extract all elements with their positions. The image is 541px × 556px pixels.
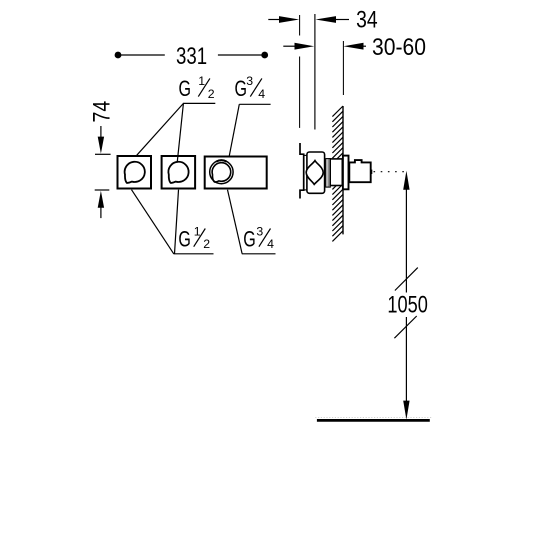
dimension 331 right end dot bbox=[261, 52, 268, 59]
leader line to bottom G1/2 from square 1 bbox=[132, 190, 174, 254]
svg-text:3: 3 bbox=[246, 74, 253, 88]
valve knob bubble 2 bbox=[168, 162, 188, 183]
dimension 1050 break slash upper bbox=[395, 268, 418, 291]
leader line to top G1/2 from bubble 2 bbox=[177, 104, 183, 163]
svg-text:30-60: 30-60 bbox=[372, 34, 426, 61]
valve square 2 bbox=[162, 156, 196, 189]
svg-text:1050: 1050 bbox=[387, 291, 428, 318]
svg-text:34: 34 bbox=[356, 7, 378, 34]
valve rectangle 3 (thermostat) bbox=[205, 157, 267, 189]
svg-text:1: 1 bbox=[198, 74, 205, 88]
handle nub bbox=[371, 170, 373, 174]
svg-text:G: G bbox=[178, 226, 191, 251]
dimension 74 top tick bbox=[95, 153, 111, 155]
thermostat inner bubble bbox=[212, 163, 231, 182]
leader line to top G3/4 from rectangle 3 bbox=[229, 104, 239, 156]
label G1/2 bottom text bbox=[178, 224, 210, 251]
floor shadow dotted line bbox=[315, 416, 431, 418]
svg-text:3: 3 bbox=[256, 224, 263, 238]
dimension 34 right arrow bbox=[335, 19, 349, 21]
dimension 1050 up arrow bbox=[403, 171, 409, 190]
dimension 74 bottom tick bbox=[95, 189, 110, 191]
svg-text:G: G bbox=[243, 226, 256, 251]
label G3/4 bottom text bbox=[243, 224, 274, 251]
thermostat outer circle bbox=[210, 160, 233, 183]
valve knob bubble 1 bbox=[125, 162, 145, 183]
valve square 1 bbox=[118, 156, 152, 189]
leader line to bottom G3/4 from rectangle 3 bbox=[228, 190, 243, 254]
dimension 331 line left segment bbox=[118, 54, 165, 56]
label G3/4 top text bbox=[235, 74, 266, 101]
dimension 1050 line lower segment bbox=[405, 317, 407, 405]
dimension 74 up arrow and lower line bbox=[98, 191, 104, 208]
label G1/2 top underline bbox=[183, 102, 215, 104]
dimension 331 line right segment bbox=[218, 54, 265, 56]
valve cartridge lens bbox=[306, 161, 323, 185]
thermostat top arc bbox=[216, 160, 226, 161]
threaded collar bbox=[326, 159, 331, 188]
valve mounting plate bbox=[300, 143, 304, 199]
dimension 74 upper line and down arrow bbox=[100, 126, 102, 140]
label G1/2 bottom underline bbox=[174, 253, 214, 255]
label G3/4 bottom underline bbox=[242, 253, 276, 255]
svg-text:74: 74 bbox=[88, 101, 115, 123]
dimension 34 left arrow bbox=[268, 19, 282, 21]
valve body step bottom bbox=[304, 189, 307, 191]
dimension 1050 break slash lower bbox=[394, 316, 416, 338]
floor line bbox=[317, 419, 430, 422]
dimension 30-60 right arrow bbox=[362, 45, 366, 47]
handle bbox=[349, 160, 370, 182]
svg-text:331: 331 bbox=[176, 43, 207, 70]
dotted reference line bbox=[374, 171, 405, 173]
svg-text:G: G bbox=[235, 76, 248, 101]
extension line A (back of valve) bbox=[299, 15, 301, 36]
extension line C (wall surface) bbox=[342, 41, 344, 95]
dimension 1050 line upper segment bbox=[405, 186, 407, 293]
svg-text:G: G bbox=[179, 76, 192, 101]
valve body (side view) bbox=[307, 152, 325, 193]
valve body step top bbox=[304, 154, 307, 156]
extension line B (front of built-in body) bbox=[314, 14, 316, 130]
wall hatching bbox=[332, 106, 343, 241]
leader line to top G1/2 from square 1 bbox=[137, 104, 183, 156]
svg-text:4: 4 bbox=[258, 87, 265, 101]
wall surface line bbox=[342, 106, 344, 234]
svg-text:2: 2 bbox=[208, 87, 215, 101]
valve neck cylinder bbox=[330, 159, 342, 186]
label G3/4 top underline bbox=[239, 103, 270, 105]
dimension 30-60 left arrow bbox=[283, 45, 296, 47]
label G1/2 top text bbox=[179, 74, 215, 101]
dimension 331 left end dot bbox=[115, 52, 122, 59]
leader line to bottom G1/2 from square 2 bbox=[175, 190, 179, 254]
dimension 1050 down arrow bbox=[403, 401, 409, 420]
escutcheon flange bbox=[343, 156, 349, 190]
svg-text:2: 2 bbox=[203, 237, 210, 251]
svg-text:4: 4 bbox=[267, 237, 274, 251]
